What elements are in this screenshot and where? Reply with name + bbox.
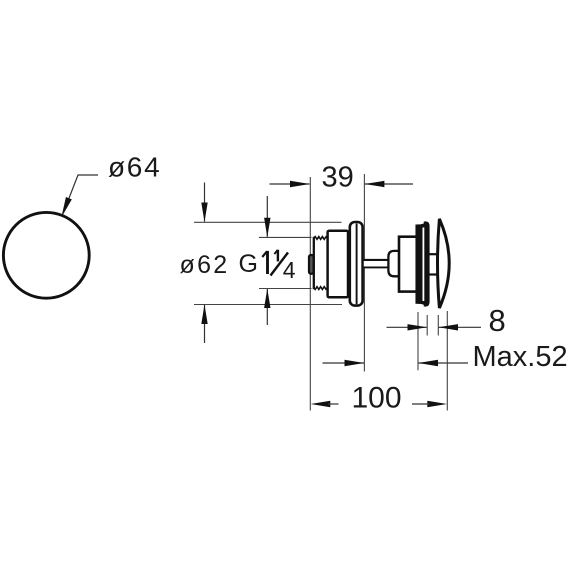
thread left edge bbox=[313, 237, 315, 289]
nub (pull rod end) bbox=[309, 255, 314, 274]
svg-text:G: G bbox=[239, 250, 258, 278]
washer (seal disc) bbox=[416, 224, 429, 304]
flange disc bbox=[350, 222, 363, 306]
hub lines bbox=[429, 253, 440, 255]
dome cap (crescent) bbox=[438, 219, 450, 308]
svg-text:ø62: ø62 bbox=[180, 251, 230, 279]
svg-text:4: 4 bbox=[283, 257, 296, 283]
thread top zigzag bbox=[314, 237, 328, 240]
dimension 8 line right part bbox=[439, 326, 482, 328]
thread bottom zigzag bbox=[314, 287, 328, 290]
dimension 39 line left part bbox=[270, 183, 310, 185]
seat block bbox=[399, 237, 419, 292]
dimension 39 line right part bbox=[365, 183, 413, 185]
svg-text:Max.52: Max.52 bbox=[473, 341, 568, 373]
ø62 top extension line bbox=[194, 221, 342, 223]
stem rod bbox=[364, 261, 389, 266]
ø62 dim line top arrow bbox=[204, 183, 206, 222]
G1¼ bottom extension line bbox=[259, 288, 312, 290]
leader arrowhead bbox=[63, 198, 72, 215]
washer white sliver bbox=[423, 228, 425, 302]
svg-text:8: 8 bbox=[489, 303, 506, 338]
short tick x=438.3 for dim 8 bbox=[437, 315, 439, 336]
valve body: thread block bbox=[314, 237, 328, 290]
ø62 bottom extension line bbox=[194, 304, 342, 306]
short tick x=427.2 for dim 8 bbox=[426, 315, 428, 336]
svg-text:ø64: ø64 bbox=[108, 152, 161, 183]
main cylinder bbox=[328, 231, 348, 298]
extension line left (x=310) for 39/100 bbox=[309, 177, 311, 411]
dimension 8 line left part bbox=[387, 326, 427, 328]
svg-text:39: 39 bbox=[322, 162, 354, 194]
fraction 1/4 numerator digit 1 bbox=[277, 250, 279, 262]
ø62 dim line bottom arrow bbox=[204, 305, 206, 343]
digit 1 (large) of G1 drawn as lines bbox=[266, 251, 269, 274]
fraction slash bbox=[271, 253, 289, 276]
circle ø64 (plug face view) bbox=[3, 212, 89, 298]
svg-text:100: 100 bbox=[352, 381, 402, 414]
G1¼ dim line top arrow bbox=[266, 196, 268, 237]
extension line dome right (x=447.3) bbox=[446, 311, 448, 411]
G1¼ top extension line bbox=[259, 236, 312, 238]
flange face line bbox=[356, 224, 358, 305]
extension line flange right (x=364.4) bbox=[363, 174, 365, 372]
ball joint bbox=[388, 251, 398, 276]
dimension 100 left arrow (inside pointing out) bbox=[311, 401, 331, 407]
extension line washer left (x=418) bbox=[417, 312, 419, 370]
G1¼ dim line bottom arrow bbox=[266, 289, 268, 325]
leader line for ø64 bbox=[65, 175, 98, 209]
dimension 100 right arrow (inside pointing out) bbox=[427, 401, 447, 407]
dimension Max.52 left arrow bbox=[323, 362, 365, 364]
dimension Max.52 right arrow bbox=[418, 362, 468, 364]
